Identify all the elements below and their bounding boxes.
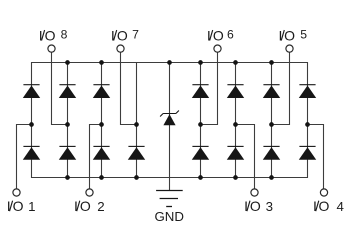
terminal I/O 6 xyxy=(214,45,221,52)
svg-text:O: O xyxy=(117,27,128,43)
bottom rail xyxy=(32,160,308,178)
svg-text:O: O xyxy=(213,27,224,43)
svg-text:3: 3 xyxy=(266,199,273,214)
diode lower column 4 xyxy=(128,146,145,160)
svg-text:O: O xyxy=(319,198,330,214)
diode upper column 1 xyxy=(23,84,40,98)
label I/O 3 xyxy=(244,198,273,214)
svg-text:I: I xyxy=(244,198,248,214)
wire column 3 vertical xyxy=(101,63,103,178)
terminal I/O 8 xyxy=(48,45,55,52)
svg-text:1: 1 xyxy=(28,199,35,214)
svg-text:O: O xyxy=(284,27,295,43)
svg-text:O: O xyxy=(45,27,56,43)
wire pin I/O 6 xyxy=(201,52,218,124)
svg-text:I: I xyxy=(313,198,317,214)
junction top rail column 6 xyxy=(233,60,238,65)
junction bottom rail column 4 xyxy=(134,175,139,180)
node column 1 xyxy=(29,122,34,127)
diode lower column 8 xyxy=(299,146,316,160)
svg-text:8: 8 xyxy=(61,28,68,42)
wire pin I/O 8 xyxy=(52,52,68,124)
label I/O 2 xyxy=(74,198,105,214)
svg-text:I: I xyxy=(207,27,211,43)
wire pin I/O 2 xyxy=(90,125,102,189)
junction bottom rail column 5 xyxy=(198,175,203,180)
diode upper column 2 xyxy=(59,84,76,98)
label I/O 6 xyxy=(207,27,234,43)
label I/O 4 xyxy=(313,198,344,214)
diode lower column 3 xyxy=(93,146,110,160)
label I/O 5 xyxy=(278,27,307,43)
diode upper column 8 xyxy=(299,84,316,98)
wire column 6 vertical xyxy=(235,63,237,178)
wire pin I/O 3 xyxy=(236,125,255,189)
terminal I/O 7 xyxy=(117,45,124,52)
diode lower column 5 xyxy=(192,146,209,160)
wire pin I/O 5 xyxy=(272,52,290,124)
terminal I/O 4 xyxy=(320,189,327,196)
svg-text:4: 4 xyxy=(336,199,343,214)
diode upper column 3 xyxy=(93,84,110,98)
node column 3 xyxy=(99,122,104,127)
node column 2 xyxy=(65,122,70,127)
terminal I/O 3 xyxy=(251,189,258,196)
svg-text:7: 7 xyxy=(132,28,139,42)
wire column 8 vertical xyxy=(307,85,309,160)
svg-text:I: I xyxy=(39,27,43,43)
wire column 4 vertical xyxy=(136,63,138,178)
svg-text:2: 2 xyxy=(97,199,104,214)
diode upper column 7 xyxy=(263,84,280,98)
junction bottom rail column 6 xyxy=(233,175,238,180)
diode lower column 6 xyxy=(227,146,244,160)
node column 7 xyxy=(269,122,274,127)
node column 4 xyxy=(134,122,139,127)
junction bottom rail column 7 xyxy=(269,175,274,180)
node column 6 xyxy=(233,122,238,127)
svg-text:O: O xyxy=(13,198,24,214)
diode lower column 2 xyxy=(59,146,76,160)
svg-text:I: I xyxy=(74,198,78,214)
junction top rail column 3 xyxy=(99,60,104,65)
node column 5 xyxy=(198,122,203,127)
junction top rail zener xyxy=(167,60,172,65)
node column 8 xyxy=(305,122,310,127)
junction top rail column 5 xyxy=(198,60,203,65)
wire pin I/O 4 xyxy=(308,125,324,189)
diode upper column 5 xyxy=(192,84,209,98)
wire column 2 vertical xyxy=(67,63,69,178)
svg-text:6: 6 xyxy=(227,28,234,42)
wire column 1 vertical xyxy=(31,85,33,160)
svg-text:I: I xyxy=(278,27,282,43)
terminal I/O 2 xyxy=(86,189,93,196)
ground xyxy=(156,191,183,207)
label I/O 1 xyxy=(7,198,36,214)
terminal I/O 5 xyxy=(286,45,293,52)
terminal I/O 1 xyxy=(13,189,20,196)
diode upper column 6 xyxy=(227,84,244,98)
junction top rail column 7 xyxy=(269,60,274,65)
label I/O 8 xyxy=(39,27,68,43)
svg-text:I: I xyxy=(111,27,115,43)
wire column 7 vertical xyxy=(271,63,273,178)
svg-text:I: I xyxy=(7,198,11,214)
junction bottom rail column 2 xyxy=(65,175,70,180)
wire zener branch / ground stem xyxy=(169,63,171,191)
svg-text:GND: GND xyxy=(154,209,184,224)
svg-text:5: 5 xyxy=(300,28,307,42)
svg-text:O: O xyxy=(250,198,261,214)
junction top rail column 2 xyxy=(65,60,70,65)
wire pin I/O 7 xyxy=(121,52,137,124)
diode lower column 1 xyxy=(23,146,40,160)
junction bottom rail column 3 xyxy=(99,175,104,180)
diode lower column 7 xyxy=(263,146,280,160)
zener diode xyxy=(160,111,179,126)
top rail xyxy=(32,63,308,85)
svg-text:O: O xyxy=(80,198,91,214)
label I/O 7 xyxy=(111,27,139,43)
wire column 5 vertical xyxy=(200,63,202,178)
wire pin I/O 1 xyxy=(17,125,32,189)
